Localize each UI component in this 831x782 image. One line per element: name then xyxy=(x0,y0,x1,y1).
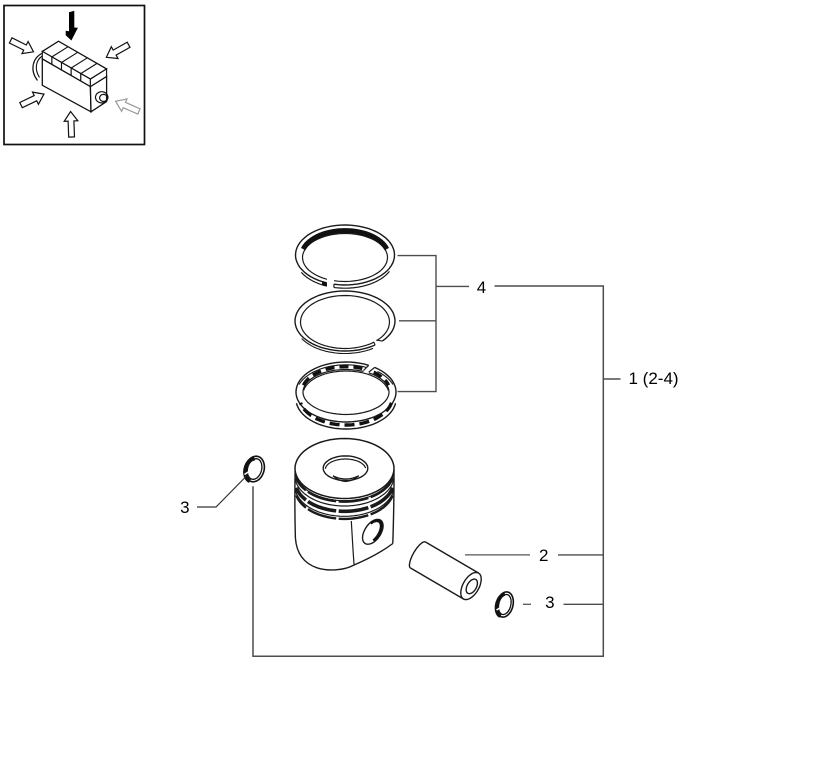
svg-text:2: 2 xyxy=(539,546,548,565)
piston bowl inner top edge xyxy=(325,459,365,469)
right snap ring (part 3) xyxy=(496,592,513,617)
line label 2 to group line xyxy=(558,554,603,556)
outline arrow top-left xyxy=(9,38,33,54)
main callout polyline (4 to 1 group to bottom to part 3) xyxy=(253,286,603,656)
front pulley arc xyxy=(33,53,43,81)
piston right side edge xyxy=(393,470,394,544)
svg-text:3: 3 xyxy=(180,498,189,517)
outline arrow bottom-center xyxy=(64,112,78,138)
dash ring to label 3 xyxy=(523,603,531,605)
svg-text:3: 3 xyxy=(545,593,554,612)
piston pin (part 2) xyxy=(409,542,481,600)
svg-text:1 (2-4): 1 (2-4) xyxy=(629,369,679,388)
tick bracket to label 4 xyxy=(436,285,469,287)
piston groove shadows xyxy=(296,478,392,502)
bracket for rings (part 4) xyxy=(398,256,437,392)
outline arrow mid-left xyxy=(20,92,44,108)
piston oil ring (part 4c) xyxy=(296,362,396,429)
leader line for left label 3 xyxy=(197,477,246,508)
leader line pin to label 2 xyxy=(465,554,530,556)
black view-direction arrow xyxy=(66,11,78,41)
tick to label 1 xyxy=(603,378,620,380)
bracket middle tick xyxy=(399,320,436,322)
piston skirt vertical line xyxy=(351,521,354,565)
piston ring top (part 4a) xyxy=(296,225,395,288)
engine block head step band xyxy=(42,51,52,64)
piston left side edge xyxy=(294,471,297,538)
piston ring middle (part 4b) xyxy=(295,291,395,354)
piston pin hole depth (dark crescent) xyxy=(371,521,382,541)
engine block front face xyxy=(42,59,91,112)
piston ring land arcs xyxy=(295,474,393,501)
outline arrow bottom-right (light) xyxy=(116,99,141,114)
piston skirt bottom xyxy=(295,538,392,570)
piston bowl floor band xyxy=(333,476,359,479)
engine block right end face xyxy=(90,76,106,111)
piston crown ellipse xyxy=(295,439,394,499)
engine block top face division lines xyxy=(52,47,68,57)
line label 3 to group line xyxy=(564,603,604,605)
left snap ring (part 3) xyxy=(245,456,265,482)
engine block head right end xyxy=(90,69,106,87)
engine block top face xyxy=(42,41,106,79)
crank boss circles xyxy=(96,92,108,103)
piston bowl rim xyxy=(323,456,368,481)
svg-text:4: 4 xyxy=(477,278,486,297)
outline arrow top-right xyxy=(106,42,130,58)
piston pin hole xyxy=(363,519,384,544)
orientation icon frame xyxy=(4,6,145,145)
